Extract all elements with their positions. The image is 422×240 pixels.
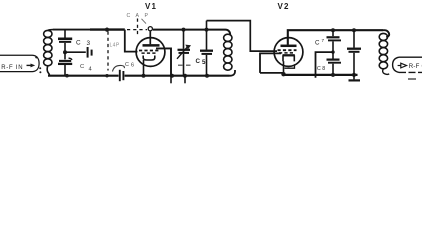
inductor L2 interstage coil [224, 34, 232, 70]
capacitor to shield (vertical plates) [88, 47, 92, 58]
junction dot at shield top [105, 28, 109, 32]
tube V2 cathode [283, 55, 295, 61]
tube V1 envelope [136, 38, 165, 67]
svg-text:P: P [145, 13, 149, 19]
tube V2 screen lead exits left [260, 53, 281, 73]
junction dot at C7 [331, 28, 335, 32]
bus rises into L2 bottom [230, 70, 236, 76]
shield partition (dashed) vertical [107, 32, 109, 71]
svg-text:R-F O: R-F O [409, 63, 422, 70]
svg-text:3: 3 [87, 40, 91, 47]
svg-text:C: C [317, 66, 321, 72]
wire: node to bypass capacitor [65, 51, 86, 53]
inductor L1 input coil [44, 30, 53, 76]
svg-text:8: 8 [322, 66, 325, 72]
capacitor C8 [327, 52, 342, 75]
bus dot at C8 [331, 73, 335, 77]
branch node at C7/C8 midpoint [331, 50, 334, 53]
ground bus (right section) [284, 74, 358, 76]
svg-text:A: A [136, 13, 140, 19]
ground wire short (V2 stage) [260, 72, 284, 74]
node dot near coil top tap [35, 56, 37, 58]
capacitor C3 [58, 30, 72, 52]
tube V1 plate lead [149, 31, 151, 44]
junction dot ground V2 [281, 72, 285, 76]
tube V1 cathode [143, 56, 155, 61]
input terminal oval R-F IN [0, 55, 39, 71]
node between C3 and C4 [63, 50, 67, 54]
svg-text:C: C [125, 62, 129, 68]
label C8 [317, 66, 325, 72]
tube V2 grid dashes [278, 49, 297, 51]
tube V1 grid dashes [139, 50, 159, 52]
tube V1 plate bar [143, 44, 160, 47]
svg-text:L4P: L4P [110, 43, 120, 49]
svg-text:5: 5 [202, 59, 206, 66]
svg-text:4: 4 [89, 67, 93, 73]
label C4 [80, 64, 93, 72]
ground bus (left section) [48, 75, 119, 77]
tube V1 grid lead [125, 30, 138, 52]
label CAP with leader [127, 13, 149, 19]
tube V2 heater hook [285, 64, 295, 68]
junction dot at C5 [182, 28, 186, 32]
tube V2 envelope [274, 38, 303, 67]
svg-text:C: C [80, 64, 84, 70]
svg-text:C: C [196, 58, 201, 65]
label C3 [76, 40, 91, 48]
tube V2 cathode lead [283, 61, 285, 74]
ground stub below bus [353, 75, 355, 80]
svg-text:C: C [315, 40, 320, 47]
tube V2 screen dashes [279, 52, 295, 54]
capacitor C9 [347, 30, 361, 75]
arrow from input oval to coil [27, 64, 36, 68]
ground bus continues to interstage coil [125, 75, 230, 77]
label C5 [196, 58, 207, 66]
junction dot at C6 [205, 28, 209, 32]
label C7 [315, 38, 325, 47]
shield partition (dashed) upper vertical [137, 19, 139, 38]
svg-text:C: C [127, 13, 131, 19]
inductor L3 output coil [379, 33, 387, 68]
svg-text:V2: V2 [278, 2, 290, 11]
capacitor C4 [58, 52, 72, 75]
capacitor C6 tank [200, 21, 213, 76]
tube V1 plate top cap [148, 27, 152, 31]
svg-text:6: 6 [131, 63, 134, 69]
tube V1 screen lead exits right [156, 48, 171, 75]
tick marks above bus [178, 64, 191, 66]
tube V2 plate lead and corner [288, 30, 383, 45]
output terminal oval [393, 57, 422, 72]
output arrow [398, 63, 407, 68]
coupling wire tank top to V2 grid [207, 21, 278, 51]
bus junction dots [65, 74, 69, 78]
heater tail below bus at screen lead [170, 76, 172, 84]
capacitor C7 [327, 30, 342, 52]
svg-text:V1: V1 [145, 2, 157, 11]
tube V2 plate bar [281, 45, 297, 48]
series capacitor in ground bus [113, 65, 125, 81]
bus end node dot [352, 73, 356, 77]
shield partition (dashed) horizontal [127, 29, 147, 31]
wire: L1 top to grid corner [53, 29, 90, 31]
wire: V1 plate to interstage tank [153, 30, 230, 35]
stray mark below output oval [408, 78, 416, 80]
wire: branch left and down to bus [316, 52, 334, 78]
tube V1 cathode lead [143, 60, 145, 76]
junction dot at C9 [352, 28, 356, 32]
svg-text:7: 7 [322, 38, 325, 43]
svg-text:R-F IN: R-F IN [1, 65, 23, 71]
variable capacitor C5 [177, 30, 191, 84]
L3 bottom lead curl [383, 69, 390, 75]
svg-text:C: C [76, 40, 81, 47]
tube V1 screen dashes [142, 52, 157, 54]
wire: V2 plate line into output coil [383, 30, 389, 37]
stray dots at coil input [39, 67, 41, 69]
faint label at cathode [125, 62, 134, 68]
